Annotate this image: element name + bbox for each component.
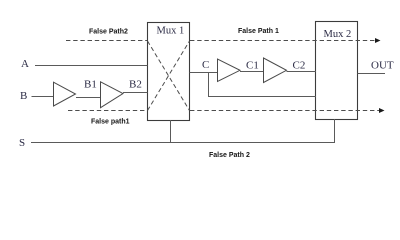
svg-text:False Path 2: False Path 2 xyxy=(209,152,250,159)
mux U2 box xyxy=(316,22,358,120)
wire C from mux U1 xyxy=(190,72,218,74)
wire B input xyxy=(32,96,54,98)
svg-text:C2: C2 xyxy=(293,60,306,72)
buffer on C path (first) xyxy=(218,59,241,82)
wire S horizontal xyxy=(31,142,335,144)
wire C branch horizontal to mux U2 xyxy=(209,96,317,98)
wire B2 xyxy=(123,92,148,94)
svg-text:Mux 2: Mux 2 xyxy=(324,29,352,40)
false path 1 arrowhead xyxy=(375,38,381,43)
svg-text:C: C xyxy=(202,59,209,71)
svg-text:OUT: OUT xyxy=(371,60,394,72)
bottom right arrowhead xyxy=(379,108,385,113)
buffer on B path (first) xyxy=(54,82,76,106)
svg-text:B1: B1 xyxy=(84,79,97,91)
wire B1 xyxy=(76,97,101,99)
buffer on B path (second) xyxy=(101,82,124,108)
wire S riser to mux U1 xyxy=(170,120,172,143)
svg-text:S: S xyxy=(19,137,25,149)
svg-text:False Path 1: False Path 1 xyxy=(238,28,279,35)
buffer on C path (second) xyxy=(264,58,287,83)
wire C branch vertical xyxy=(208,73,210,98)
wire A xyxy=(35,65,148,67)
false path 2 dashed line (top left) xyxy=(66,40,147,42)
svg-text:False Path2: False Path2 xyxy=(89,29,128,36)
false path1 dashed line (bottom left) xyxy=(68,110,147,112)
wire C2 to mux U2 xyxy=(287,71,317,73)
svg-text:B: B xyxy=(20,90,27,102)
mux U1 crossbar diagonal 1 xyxy=(148,41,190,111)
bottom right dashed line xyxy=(190,110,379,112)
svg-text:A: A xyxy=(21,58,29,70)
svg-text:C1: C1 xyxy=(246,60,259,72)
false path 1 dashed line (top right) xyxy=(190,40,375,42)
svg-text:Mux 1: Mux 1 xyxy=(157,26,185,37)
svg-text:False path1: False path1 xyxy=(91,119,130,126)
wire OUT xyxy=(358,73,386,75)
wire C1 xyxy=(240,71,264,73)
svg-text:B2: B2 xyxy=(129,79,142,91)
mux U1 crossbar diagonal 2 xyxy=(148,41,190,111)
wire S riser to mux U2 xyxy=(334,119,336,143)
mux U1 box xyxy=(148,23,190,121)
